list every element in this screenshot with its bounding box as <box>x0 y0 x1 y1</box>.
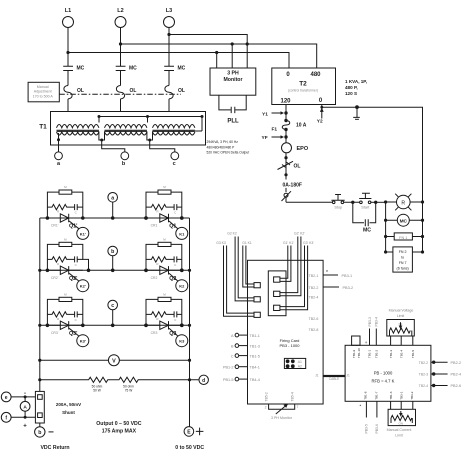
wire MC to OL phase L2 <box>120 71 122 86</box>
fan FN 1 box <box>386 233 423 240</box>
svg-text:1 KVA, 1P,: 1 KVA, 1P, <box>345 79 367 84</box>
svg-text:YF: YF <box>262 135 268 141</box>
voltmeter V <box>40 355 190 366</box>
thermostat label 0A-180F <box>282 180 310 189</box>
svg-text:TB2-4: TB2-4 <box>419 384 428 388</box>
thyristor Q3' <box>47 321 82 336</box>
wire monitor drop 1 <box>216 53 218 69</box>
wire EPO to OL <box>285 153 287 162</box>
svg-text:G3' K3': G3' K3' <box>303 241 314 245</box>
resistor sharing Q3 <box>158 297 171 301</box>
node dot below EPO <box>284 156 287 159</box>
T1 core group b <box>105 130 147 131</box>
wire pair G2' K2' <box>280 237 301 296</box>
thyristor Q2 <box>146 266 182 281</box>
junction dots cell Q3' <box>46 324 85 328</box>
pilot light R <box>386 194 423 211</box>
resistor sharing Q1' <box>59 190 72 194</box>
svg-text:a: a <box>111 196 114 202</box>
svg-text:FN 7: FN 7 <box>399 261 407 265</box>
svg-text:TB2-6: TB2-6 <box>309 317 319 321</box>
svg-text:G1' K1': G1' K1' <box>283 241 294 245</box>
svg-text:10 A: 10 A <box>296 123 307 129</box>
3 PH monitor box U3 <box>210 68 256 95</box>
gate terminal K1 <box>176 227 188 239</box>
svg-text:TB2-2: TB2-2 <box>309 286 319 290</box>
PB bottom terminal labels <box>364 391 414 400</box>
snubber R and C Q2' <box>47 256 82 262</box>
svg-text:CR2': CR2' <box>51 276 59 280</box>
wire bridge row 1 <box>40 217 190 219</box>
svg-text:TB1-7: TB1-7 <box>375 391 379 400</box>
pad G2 K2 <box>254 297 260 302</box>
card bottom lead TB5-4 <box>288 392 299 409</box>
svg-text:CR3: CR3 <box>151 331 158 335</box>
svg-text:3 PH: 3 PH <box>227 71 239 77</box>
node dot above thermostat <box>284 173 287 176</box>
wire pair G1 K1 <box>243 246 255 288</box>
svg-text:PB3-6: PB3-6 <box>375 424 379 434</box>
svg-text:MC: MC <box>129 66 137 72</box>
node Y1 <box>262 111 288 117</box>
svg-text:Start: Start <box>361 205 370 209</box>
shunt label <box>56 402 81 415</box>
wire f to shunt <box>11 416 35 418</box>
svg-text:b: b <box>111 249 114 255</box>
svg-text:L3: L3 <box>166 8 172 14</box>
overload element OL phase L1 <box>64 86 84 99</box>
svg-text:G2 K2: G2 K2 <box>227 232 237 236</box>
svg-text:PB - 1000: PB - 1000 <box>374 370 393 375</box>
card terminal PB1-2 TB4-1 <box>223 365 260 369</box>
svg-text:480/480/460/480 P: 480/480/460/480 P <box>207 145 236 149</box>
svg-text:T2: T2 <box>299 81 307 88</box>
node a <box>108 193 118 219</box>
svg-text:294KVA, 3 PH, 60 Hz: 294KVA, 3 PH, 60 Hz <box>207 140 239 144</box>
node dot row 1 <box>111 216 184 220</box>
gate terminal K2 <box>176 280 188 292</box>
svg-text:PB2-4: PB2-4 <box>451 373 462 377</box>
svg-text:Q3: Q3 <box>169 331 176 337</box>
wire e to shunt <box>11 396 35 398</box>
svg-text:TB1-10: TB1-10 <box>357 348 361 358</box>
T1 secondary winding c <box>153 132 195 135</box>
T1 primary winding b <box>105 125 147 128</box>
mechanical linkage dash-dot line <box>59 93 181 95</box>
svg-text:PB1-2: PB1-2 <box>223 365 234 369</box>
SCR cell Q1 top branch <box>146 192 182 218</box>
svg-text:CR2: CR2 <box>151 276 158 280</box>
T1 interwinding dip ab <box>99 131 105 140</box>
wire OL to T1 phase L1 <box>67 99 69 124</box>
PB-1000 title <box>372 370 395 383</box>
wire L2 vertical <box>120 28 122 67</box>
svg-text:MC: MC <box>77 66 85 72</box>
wire PLL right <box>235 95 246 110</box>
gate terminal K3 <box>176 335 188 347</box>
svg-text:MC: MC <box>400 218 408 224</box>
svg-text:PB1-5: PB1-5 <box>223 378 234 382</box>
pad G3 K3 <box>254 312 260 317</box>
svg-text:J1: J1 <box>315 373 319 377</box>
svg-text:K1: K1 <box>179 231 185 236</box>
wire PB3-6 output <box>375 401 379 433</box>
svg-text:Q1': Q1' <box>69 224 77 230</box>
svg-text:A: A <box>23 404 27 410</box>
svg-text:Limit: Limit <box>395 433 403 437</box>
resistor sharing Q2 <box>158 242 171 246</box>
svg-text:MC: MC <box>178 66 186 72</box>
svg-text:TB4-4: TB4-4 <box>250 378 260 382</box>
gate terminal K3' <box>77 335 89 347</box>
svg-text:Y1: Y1 <box>262 111 268 117</box>
svg-text:0 to 50 VDC: 0 to 50 VDC <box>175 445 204 451</box>
contact MC auxiliary <box>351 201 377 234</box>
T1 core group a <box>57 130 99 131</box>
wire L3 bus <box>169 35 247 69</box>
svg-text:b: b <box>38 430 41 436</box>
svg-text:G2' K2': G2' K2' <box>294 232 305 236</box>
terminal a <box>55 152 63 167</box>
resistor 50 ohm 75 W label <box>123 384 134 392</box>
card terminal PB1-5 TB4-4 <box>223 377 260 381</box>
svg-text:FN 2: FN 2 <box>399 250 407 254</box>
PLL contact <box>227 107 239 125</box>
svg-text:-: - <box>24 391 26 397</box>
snubber R and C Q1 <box>146 204 182 210</box>
svg-text:K2: K2 <box>179 284 185 289</box>
svg-text:3 PH Monitor: 3 PH Monitor <box>271 416 293 420</box>
svg-text:Stop: Stop <box>334 205 342 209</box>
svg-text:c: c <box>173 161 176 167</box>
svg-text:K2': K2' <box>80 284 86 289</box>
wire L1 bus <box>68 53 289 69</box>
svg-text:TB2-8: TB2-8 <box>309 328 319 332</box>
svg-text:0A-180F: 0A-180F <box>283 182 302 188</box>
svg-text:F1: F1 <box>272 127 278 133</box>
T1 primary winding a <box>57 125 99 128</box>
svg-text:TB3-1: TB3-1 <box>399 391 403 400</box>
wire OL to T1 phase L2 <box>120 99 122 124</box>
svg-text:c: c <box>111 303 114 309</box>
svg-text:520 VAC OPEN Delta Output: 520 VAC OPEN Delta Output <box>207 151 250 155</box>
3 PH monitor contact <box>271 404 293 420</box>
rail junction dots <box>38 269 191 382</box>
terminal c <box>171 152 179 167</box>
transformer T2 box <box>272 68 336 105</box>
wire bridge row 3 <box>40 324 190 326</box>
SCR cell Q1' top branch <box>47 192 82 218</box>
svg-text:TB1-8: TB1-8 <box>364 391 368 400</box>
svg-text:75 W: 75 W <box>125 388 132 392</box>
pad G2' K2' <box>274 291 280 296</box>
SCR cell Q3' top branch <box>47 299 82 325</box>
wire T2 0 output to right rail <box>322 105 423 253</box>
connector shroud <box>268 271 286 316</box>
svg-text:MC: MC <box>363 228 371 234</box>
svg-text:(control transformer): (control transformer) <box>288 89 318 93</box>
svg-text:G1 K1: G1 K1 <box>242 241 252 245</box>
svg-text:OL: OL <box>178 88 185 94</box>
T1 secondary lead c <box>150 140 175 152</box>
wire L2 bus <box>121 44 317 68</box>
svg-text:d: d <box>202 378 205 384</box>
SCR cell Q3 top branch <box>146 299 182 325</box>
thyristor Q2' <box>47 266 82 281</box>
svg-text:A1: A1 <box>298 360 302 364</box>
svg-text:TB1-6: TB1-6 <box>389 391 393 400</box>
manual adjustment box <box>28 82 59 102</box>
svg-text:Adjustment: Adjustment <box>34 90 52 94</box>
svg-text:PB3-1: PB3-1 <box>342 274 353 278</box>
label output rating <box>96 421 142 435</box>
svg-text:C: C <box>231 354 234 358</box>
svg-text:T1: T1 <box>39 124 47 131</box>
rail right DC bus <box>189 218 191 427</box>
snubber R and C Q3 <box>146 311 182 317</box>
svg-text:FN 1: FN 1 <box>399 236 407 240</box>
card terminal A TB1-1 <box>231 333 260 337</box>
contact OL <box>278 161 301 169</box>
card bottom lead TB5-2 <box>264 392 276 409</box>
svg-text:G3 K3: G3 K3 <box>216 241 226 245</box>
pad G3' K3' <box>274 305 280 310</box>
pushbutton Stop <box>331 195 344 210</box>
wire stop to start <box>344 201 360 203</box>
overload element OL phase L3 <box>165 86 185 99</box>
thermostat contact <box>282 191 292 202</box>
card terminal B TB1-3 <box>231 344 260 348</box>
svg-text:CR1: CR1 <box>151 224 158 228</box>
node dot row 2 <box>111 269 184 273</box>
pad G1' K1' <box>274 277 280 282</box>
svg-text:170 to 500 A: 170 to 500 A <box>33 95 54 99</box>
svg-text:+: + <box>365 340 368 345</box>
terminal d <box>199 375 208 384</box>
terminal b negative <box>35 427 54 437</box>
svg-text:J1: J1 <box>346 373 350 377</box>
wire MC to OL phase L1 <box>67 71 69 86</box>
rail left DC bus <box>39 218 41 391</box>
wire start to rail <box>371 201 386 203</box>
junction dots cell Q2' <box>46 269 91 273</box>
svg-text:K1': K1' <box>80 231 86 236</box>
svg-text:PB3-3: PB3-3 <box>368 317 372 327</box>
transformer T1 box <box>39 112 205 146</box>
T1 secondary winding a <box>57 132 99 135</box>
connector A1 A2 <box>284 358 305 368</box>
PB top terminal labels <box>352 348 415 358</box>
svg-text:PB3 - 1000: PB3 - 1000 <box>279 343 300 348</box>
svg-text:TB1-2: TB1-2 <box>375 349 379 358</box>
manual current limit pot P1 <box>387 409 416 437</box>
wire L1 vertical <box>67 28 69 67</box>
SCR cell Q2' top branch <box>47 244 88 270</box>
svg-text:L2: L2 <box>117 8 123 14</box>
svg-text:L1: L1 <box>65 8 71 14</box>
pad G1 K1 <box>254 283 260 288</box>
svg-text:CR3': CR3' <box>51 331 59 335</box>
svg-text:Q1: Q1 <box>169 224 176 230</box>
svg-text:TB2-2: TB2-2 <box>419 361 428 365</box>
svg-text:PB3-5: PB3-5 <box>365 424 369 434</box>
wire bridge row 2 <box>40 269 190 271</box>
svg-text:e: e <box>5 395 8 401</box>
snubber R and C Q2 <box>146 256 182 262</box>
wire PLL left <box>219 95 231 110</box>
junction dots cell Q1' <box>46 216 85 220</box>
card label TB2-1 with output PB3-1 <box>309 270 352 278</box>
T1 secondary lead a <box>58 133 60 152</box>
svg-text:TB2-4: TB2-4 <box>309 296 319 300</box>
coil MC <box>386 214 423 226</box>
svg-text:120: 120 <box>280 99 291 105</box>
wire MC to OL phase L3 <box>168 71 170 86</box>
node junction dots feeder <box>66 33 248 54</box>
thyristor Q3 <box>146 321 182 336</box>
T1 secondary lead b <box>102 140 125 152</box>
wire pair G3 K3 <box>224 246 255 317</box>
junction dots cell Q3 <box>144 324 183 328</box>
svg-text:+: + <box>23 424 27 430</box>
junction dots cell Q2 <box>144 269 183 273</box>
svg-text:PB3-4: PB3-4 <box>375 317 379 327</box>
resistor sharing Q1 <box>158 190 171 194</box>
terminal E positive <box>184 427 203 437</box>
svg-text:Limit: Limit <box>397 314 405 318</box>
svg-text:K3': K3' <box>80 339 86 344</box>
node L1 <box>63 8 74 28</box>
card label TB2-2 with output PB3-2 <box>309 286 353 290</box>
contactor contact MC phase L2 <box>116 66 137 72</box>
svg-text:7: 7 <box>297 405 299 409</box>
svg-text:*: * <box>360 404 362 409</box>
wire OL to T1 phase L3 <box>168 99 170 124</box>
svg-text:to: to <box>401 256 404 260</box>
T1 primary winding c <box>153 125 195 128</box>
svg-text:Y2: Y2 <box>317 118 323 124</box>
svg-text:(6 fans): (6 fans) <box>397 267 409 271</box>
T1 rating text <box>207 140 250 155</box>
svg-text:K3: K3 <box>179 339 185 344</box>
svg-text:CABLE: CABLE <box>329 377 339 381</box>
T1 primary riser wires <box>99 117 202 132</box>
firing card PB3-1000 box <box>248 260 324 404</box>
wires voltage pot to PB <box>391 336 413 345</box>
svg-text:R: R <box>401 200 405 206</box>
manual voltage limit pot P2 <box>387 309 415 336</box>
resistor 50 ohm 50 W label <box>92 384 103 392</box>
wires current pot to PB <box>391 401 413 409</box>
node Y2 <box>317 108 324 125</box>
node L3 <box>164 8 175 28</box>
PB right terminal TB2-3 to PB2-4 <box>419 372 461 376</box>
svg-text:TB1-4: TB1-4 <box>399 349 403 358</box>
svg-text:480 P,: 480 P, <box>345 85 358 90</box>
SCR cell Q2 top branch <box>146 244 182 270</box>
wire PB3-5 output <box>365 401 369 433</box>
svg-text:Q2: Q2 <box>169 276 176 282</box>
svg-text:Manual Current: Manual Current <box>387 428 412 432</box>
svg-text:OL: OL <box>77 88 84 94</box>
contactor contact MC phase L1 <box>63 66 84 72</box>
svg-text:Shunt: Shunt <box>62 410 75 415</box>
svg-text:Q3': Q3' <box>69 331 77 337</box>
T2 rating text <box>345 79 367 96</box>
svg-text:TB4-1: TB4-1 <box>250 365 260 369</box>
svg-text:TB1-9: TB1-9 <box>352 349 356 358</box>
thyristor Q1' <box>47 214 82 229</box>
svg-text:TB1-5: TB1-5 <box>250 354 260 358</box>
svg-text:PB3-2: PB3-2 <box>343 286 354 290</box>
svg-text:Monitor: Monitor <box>223 77 242 83</box>
svg-text:RFB = 4.7 K: RFB = 4.7 K <box>372 378 395 383</box>
resistor sharing Q3' <box>59 297 72 301</box>
overload element OL phase L2 <box>116 86 136 99</box>
svg-text:TB5-2: TB5-2 <box>264 392 268 401</box>
svg-text:TB1-3: TB1-3 <box>250 344 260 348</box>
T1 internal top bus <box>99 116 202 118</box>
shunt 200A 50mV <box>35 391 44 423</box>
svg-text:OL: OL <box>294 164 301 170</box>
svg-text:Output 0 – 50 VDC: Output 0 – 50 VDC <box>96 421 142 427</box>
svg-text:480: 480 <box>310 72 321 78</box>
pushbutton Start <box>359 193 371 209</box>
firing card title <box>279 338 300 348</box>
bleeder resistor line <box>40 377 199 382</box>
ground <box>353 105 360 119</box>
svg-text:PLL: PLL <box>227 119 239 125</box>
svg-text:VDC Return: VDC Return <box>40 445 69 451</box>
svg-text:Q2': Q2' <box>69 276 77 282</box>
wire rung to stop <box>286 201 333 203</box>
terminal e <box>1 392 11 402</box>
terminal f <box>1 412 11 422</box>
svg-text:2: 2 <box>265 406 267 410</box>
wire pair G1' K1' <box>280 246 291 282</box>
svg-text:EPO: EPO <box>297 146 309 152</box>
node dot row 3 <box>111 324 184 328</box>
wire PB3-3 input <box>368 317 372 345</box>
gate terminal K1' <box>77 227 89 239</box>
card terminal C TB1-5 <box>231 354 260 358</box>
node c <box>108 300 118 325</box>
svg-text:V: V <box>112 358 116 364</box>
svg-text:200A, 50mV: 200A, 50mV <box>56 402 81 407</box>
fuse F1 10 A <box>272 119 307 133</box>
svg-text:Manual: Manual <box>37 85 49 89</box>
wire T2 120 output <box>285 105 287 121</box>
node YF <box>262 135 288 141</box>
snubber R and C Q1' <box>47 204 82 210</box>
branch rail left <box>385 202 387 252</box>
node L2 <box>115 8 126 28</box>
svg-text:A2: A2 <box>298 365 302 369</box>
fan FN 2 to FN 7 box <box>386 247 423 272</box>
svg-text:TB3-2: TB3-2 <box>410 391 414 400</box>
svg-text:175 Amp MAX: 175 Amp MAX <box>102 428 137 434</box>
PB-1000 box <box>345 345 431 401</box>
ammeter A <box>20 391 30 430</box>
junction dots cell Q1 <box>144 216 183 220</box>
terminal b <box>121 152 129 167</box>
node b <box>108 246 118 270</box>
svg-text:TB2-1: TB2-1 <box>309 274 319 278</box>
contactor contact MC phase L3 <box>164 66 185 72</box>
wire monitor drop 2 <box>231 44 233 68</box>
PB right terminal TB2-2 to PB2-2 <box>419 361 461 365</box>
cable bar J1 to PB <box>323 375 345 381</box>
